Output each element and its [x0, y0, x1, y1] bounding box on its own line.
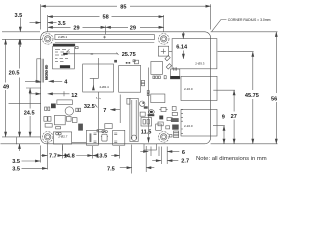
- corner radius leader: [212, 20, 227, 32]
- SD card (left edge): [37, 59, 49, 83]
- clutter left of USB2: [158, 107, 183, 138]
- dim 12: [29, 91, 70, 96]
- GPIO header J8: [55, 35, 154, 43]
- dim 14.8: [63, 155, 93, 157]
- svg-text:2.7: 2.7: [181, 159, 189, 165]
- camera connector: [127, 98, 138, 141]
- svg-text:29: 29: [130, 25, 136, 31]
- dim 3.5 bottom row2: [22, 167, 48, 169]
- dim 2.7 bottom right: [152, 147, 178, 165]
- svg-text:49: 49: [3, 84, 9, 90]
- svg-text:3.5: 3.5: [58, 21, 66, 27]
- diamonds (LEDs): [165, 56, 172, 70]
- bits right of hole bottom-right: [0, 0, 1, 1]
- dim 6 bottom right: [140, 147, 179, 165]
- dim 49 left: [5, 39, 7, 136]
- svg-text:25.75: 25.75: [122, 52, 136, 58]
- dim 24.5 left: [29, 88, 31, 137]
- svg-text:7: 7: [103, 108, 106, 114]
- leader 32.5: [98, 92, 100, 144]
- dim 29 right: [106, 26, 164, 28]
- SoC: [83, 58, 114, 92]
- svg-text:14.8: 14.8: [64, 154, 75, 160]
- small comp with two circles (mid-bottom): [101, 131, 108, 142]
- dim 7 (to hole): [110, 68, 148, 136]
- dim 20.5 left: [17, 39, 20, 151]
- svg-text:29: 29: [73, 25, 79, 31]
- dim 7.7: [41, 155, 63, 157]
- svg-text:27: 27: [231, 114, 237, 120]
- HDMI connector: [86, 130, 98, 145]
- svg-text:3.5: 3.5: [15, 13, 23, 19]
- extension lines top: [41, 4, 211, 34]
- svg-text:7.7: 7.7: [49, 154, 57, 160]
- ethernet pins bottom: [147, 67, 177, 95]
- svg-text:2-16.0: 2-16.0: [184, 124, 193, 128]
- leader 25.75: [63, 49, 118, 55]
- small clutter left-center: [44, 104, 83, 135]
- dim 3.5 horizontal top-left: [30, 22, 57, 24]
- mounting hole top-right: [158, 34, 169, 45]
- mounting hole bottom-right: [158, 132, 169, 143]
- USB stack 2: [181, 109, 217, 136]
- dim 4: [25, 80, 62, 82]
- board inner line bottom: [72, 142, 87, 144]
- leader 11.5: [148, 135, 150, 143]
- box B inner marks: [55, 50, 70, 62]
- USB stack 1: [181, 76, 217, 100]
- svg-text:2-Ø3.3: 2-Ø3.3: [195, 61, 205, 65]
- svg-text:3.5: 3.5: [12, 159, 20, 165]
- bottom-left extensions: [41, 141, 147, 174]
- left extension lines: [1, 88, 42, 144]
- svg-text:85: 85: [120, 5, 126, 11]
- svg-text:24.5: 24.5: [24, 111, 35, 117]
- dim 29 left: [48, 26, 106, 28]
- svg-text:Note: all dimensions in mm: Note: all dimensions in mm: [196, 156, 267, 162]
- connector 3 (bottom): [113, 130, 125, 145]
- bits near bottom hole right: [170, 135, 173, 138]
- right side extensions: [211, 32, 278, 144]
- svg-text:13.5: 13.5: [96, 154, 107, 160]
- svg-text:2-16.0: 2-16.0: [184, 87, 193, 91]
- component with dark bar (between eth and USB1): [170, 69, 179, 79]
- svg-text:CORNER RADIUS = 3.0mm: CORNER RADIUS = 3.0mm: [228, 18, 271, 22]
- RAM: [119, 66, 145, 93]
- svg-text:56: 56: [271, 96, 277, 102]
- component box B (display/chip area top-left): [53, 47, 79, 69]
- dim 3.5 bottom row1: [22, 160, 41, 162]
- audio jack barrel: [144, 144, 156, 150]
- dim 58: [48, 16, 164, 18]
- PoE header box with cross: [158, 46, 172, 56]
- svg-text:6.14: 6.14: [176, 45, 188, 51]
- power connector (bottom-left): [53, 132, 71, 151]
- svg-text:6: 6: [182, 150, 185, 156]
- svg-text:7.5: 7.5: [107, 166, 115, 172]
- svg-text:MICRO SD: MICRO SD: [44, 64, 48, 80]
- dim 3.5 vertical top-left: [2, 18, 42, 47]
- board outline: [41, 32, 211, 144]
- dim 56 right: [275, 32, 277, 144]
- svg-text:45.75: 45.75: [245, 93, 259, 99]
- ethernet jack: [172, 39, 217, 69]
- tiny bits above RAM: [114, 60, 138, 64]
- svg-text:3.5: 3.5: [12, 167, 20, 173]
- svg-text:58: 58: [103, 14, 109, 20]
- dim 13.5: [93, 155, 120, 157]
- svg-text:11.5: 11.5: [141, 129, 152, 135]
- pads below SoC: [153, 76, 166, 79]
- mounting hole top-left: [42, 34, 53, 45]
- dim 85 top: [41, 5, 211, 7]
- dim 9: [223, 126, 225, 144]
- DSI connector bar: [57, 100, 72, 105]
- leader 6.14: [182, 32, 184, 59]
- mounting hole bottom-left: [42, 132, 53, 143]
- LAN9514 chip: [151, 62, 163, 75]
- dim 27: [233, 90, 235, 144]
- pin row under GPIO: [53, 44, 75, 46]
- svg-text:12: 12: [71, 93, 77, 99]
- svg-text:32.5: 32.5: [84, 104, 95, 110]
- dim 45.75: [252, 52, 254, 144]
- dim 7.5: [120, 167, 155, 169]
- svg-text:2-Ø2.4: 2-Ø2.4: [100, 85, 110, 89]
- svg-text:9: 9: [222, 114, 225, 120]
- svg-text:2-Ø2.7: 2-Ø2.7: [58, 134, 68, 138]
- svg-text:20.5: 20.5: [9, 70, 20, 76]
- svg-text:2-Ø6.1: 2-Ø6.1: [58, 35, 68, 39]
- clutter mid-board (below RAM): [95, 94, 165, 132]
